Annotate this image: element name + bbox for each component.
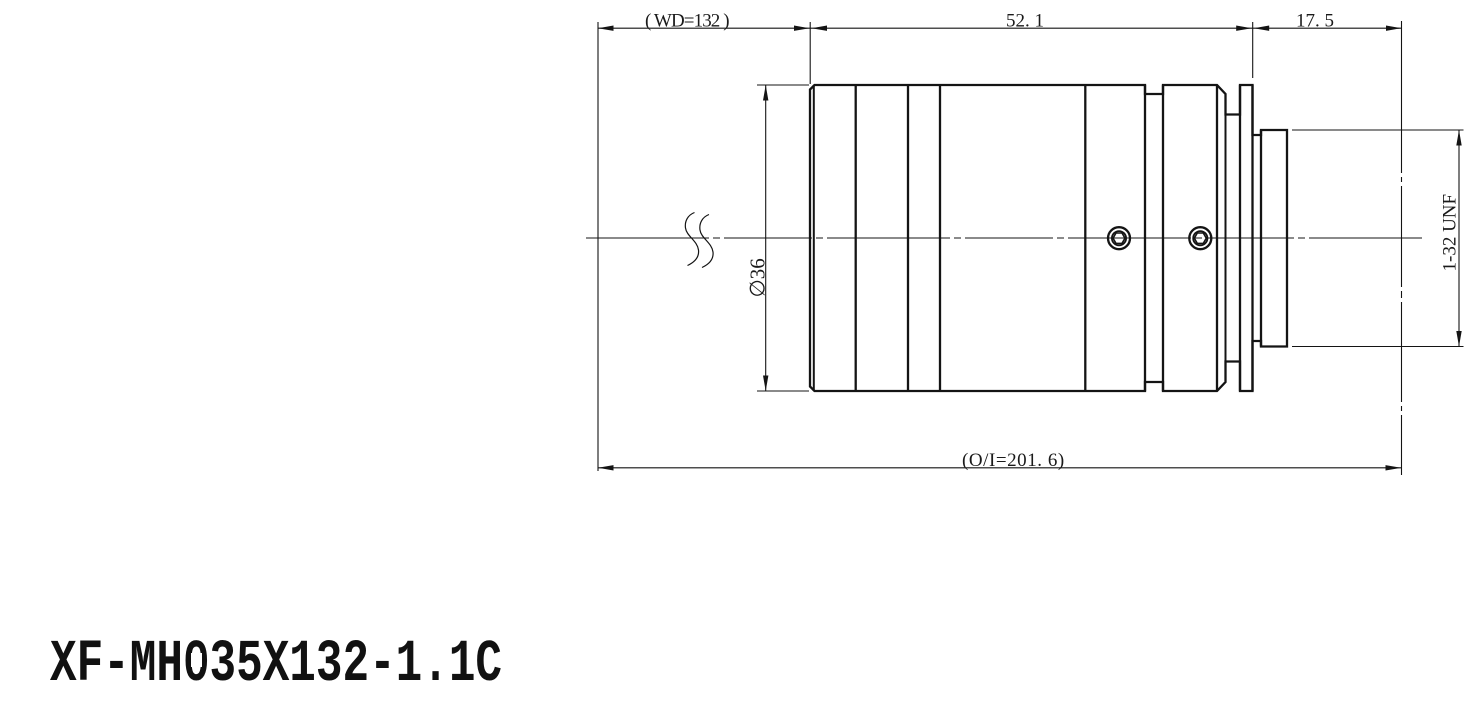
flange right face — [1251, 85, 1253, 391]
lens main body outline — [810, 85, 1287, 391]
set screw 1 — [1108, 227, 1130, 249]
extension line at body front — [809, 22, 811, 84]
zero dot cover — [191, 653, 202, 667]
arrow 52.1 right — [1236, 26, 1252, 31]
rear ring chamfer line — [1225, 94, 1227, 382]
arrow WD right — [794, 26, 810, 31]
phi36 top extension — [757, 84, 809, 86]
phi36 bottom extension — [757, 390, 809, 392]
svg-text:17. 5: 17. 5 — [1296, 10, 1334, 31]
arrow phi36 bottom — [763, 376, 768, 392]
extension line left (WD / OI) — [597, 22, 599, 471]
arrow OI right — [1386, 465, 1402, 470]
arrow phi36 top — [763, 85, 768, 101]
extension line at flange — [1252, 22, 1254, 78]
svg-text:( WD=132 ): ( WD=132 ) — [645, 10, 729, 31]
barrel groove line 2 — [907, 85, 909, 391]
svg-text:(O/I=201. 6): (O/I=201. 6) — [962, 450, 1065, 471]
svg-text:∅36: ∅36 — [746, 258, 770, 297]
barrel groove line 1 — [855, 85, 857, 391]
unf top extension — [1292, 129, 1464, 131]
top dimension line — [598, 27, 1402, 29]
rear ring left face — [1162, 85, 1164, 391]
optical axis centerline — [586, 237, 1422, 239]
body right face — [1144, 85, 1146, 391]
arrow unf bottom — [1456, 331, 1461, 347]
arrow 17.5 right — [1386, 26, 1402, 31]
unf dimension line — [1458, 130, 1460, 347]
unf bottom extension — [1292, 346, 1464, 348]
phi36 dimension line — [765, 85, 767, 391]
barrel groove line 3 — [939, 85, 941, 391]
thread relief groove face — [1260, 130, 1262, 347]
focus ring boundary — [1084, 85, 1086, 391]
rear ring right face — [1216, 86, 1218, 390]
svg-text:52. 1: 52. 1 — [1006, 10, 1044, 31]
arrow OI left — [598, 465, 614, 470]
break squiggle 2 — [700, 215, 713, 268]
arrow 52.1 left — [812, 26, 828, 31]
svg-text:1-32 UNF: 1-32 UNF — [1440, 194, 1461, 272]
part number title — [50, 631, 502, 698]
front chamfer line — [813, 85, 815, 391]
break squiggle 1 — [685, 213, 698, 266]
image plane centerline — [1401, 21, 1403, 476]
arrow unf top — [1456, 130, 1461, 146]
arrow 17.5 left — [1254, 26, 1270, 31]
flange left face — [1239, 85, 1241, 391]
arrow WD left — [598, 26, 614, 31]
set screw 2 — [1189, 227, 1211, 249]
bottom dimension line O/I — [598, 467, 1401, 469]
